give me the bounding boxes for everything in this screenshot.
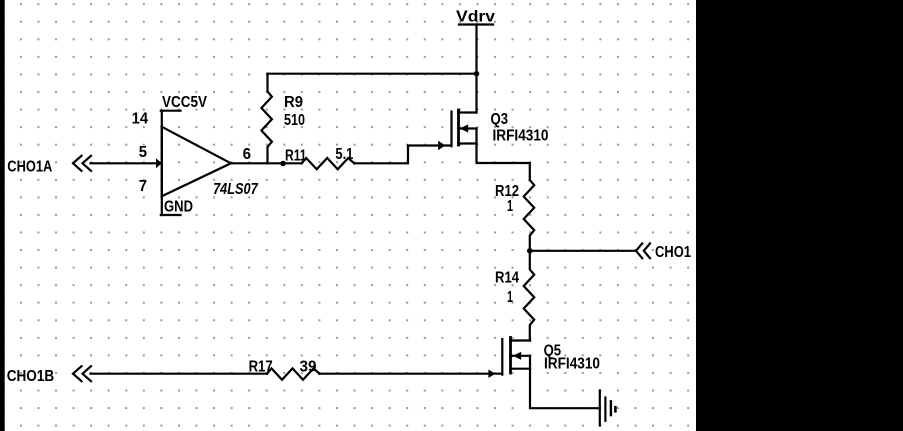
resistor R17 xyxy=(267,368,320,379)
svg-text:74LS07: 74LS07 xyxy=(213,181,258,198)
transistor Q5 xyxy=(502,338,530,375)
svg-text:VCC5V: VCC5V xyxy=(162,94,207,111)
transistor Q3 xyxy=(452,110,477,146)
svg-text:CHO1: CHO1 xyxy=(655,244,691,261)
wire R17 to Q5 gate xyxy=(320,370,502,378)
svg-text:Q3: Q3 xyxy=(491,111,509,128)
svg-text:GND: GND xyxy=(164,199,193,216)
buffer U1 74LS07 xyxy=(162,111,231,215)
svg-text:Vdrv: Vdrv xyxy=(456,8,495,25)
resistor R12 xyxy=(524,180,535,251)
svg-text:5: 5 xyxy=(139,144,147,161)
svg-text:R17: R17 xyxy=(249,359,273,376)
resistor R11 xyxy=(302,158,355,169)
svg-text:1: 1 xyxy=(507,198,513,215)
svg-text:CHO1B: CHO1B xyxy=(7,368,55,385)
resistor R9 xyxy=(261,74,272,164)
wire CHO1A to pin 5 xyxy=(91,158,162,168)
port CHO1 xyxy=(636,243,691,261)
junction A xyxy=(280,161,286,167)
svg-text:510: 510 xyxy=(284,112,305,129)
svg-text:7: 7 xyxy=(139,178,147,195)
power Vdrv xyxy=(456,8,495,25)
port CHO1B xyxy=(7,366,91,385)
svg-text:R9: R9 xyxy=(284,94,303,111)
power VCC5V xyxy=(161,94,207,111)
port CHO1A xyxy=(7,156,91,176)
power GND xyxy=(161,199,193,216)
wire to CHO1 xyxy=(530,250,636,252)
ground xyxy=(600,390,616,425)
svg-text:1: 1 xyxy=(507,289,513,306)
wire pin 6 to R11 xyxy=(231,162,302,164)
svg-text:5.1: 5.1 xyxy=(335,146,353,163)
svg-text:39: 39 xyxy=(300,359,317,376)
wire Vdrv to Q3 drain xyxy=(475,25,477,113)
wire R14 to Q5 drain xyxy=(529,339,531,341)
svg-text:CHO1A: CHO1A xyxy=(7,158,52,175)
wire Q5 source to ground xyxy=(530,369,599,409)
wire top rail xyxy=(268,73,477,75)
resistor R14 xyxy=(524,251,535,341)
wire Q3 source to R12 xyxy=(477,144,530,181)
junction B xyxy=(474,71,480,77)
svg-text:R11: R11 xyxy=(285,148,307,165)
svg-text:6: 6 xyxy=(243,146,251,163)
svg-text:14: 14 xyxy=(132,111,149,128)
wire R11 to Q3 gate xyxy=(354,141,450,164)
svg-text:R14: R14 xyxy=(495,270,519,287)
svg-text:IRFI4310: IRFI4310 xyxy=(544,356,600,373)
svg-text:IRFI4310: IRFI4310 xyxy=(493,128,549,145)
wire CHO1B to R17 xyxy=(91,373,268,375)
junction C xyxy=(527,248,533,254)
